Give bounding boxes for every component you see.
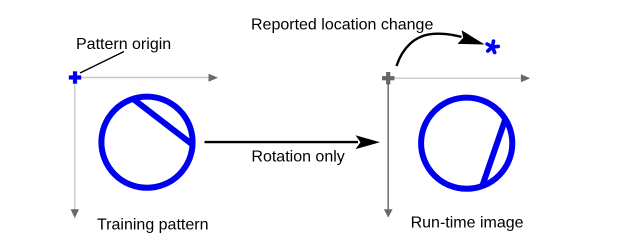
svg-text:Training pattern: Training pattern <box>97 217 208 234</box>
svg-text:Pattern origin: Pattern origin <box>76 36 171 53</box>
svg-text:Run-time image: Run-time image <box>411 215 524 232</box>
svg-text:Rotation only: Rotation only <box>251 149 344 166</box>
svg-text:Reported location change: Reported location change <box>251 16 433 33</box>
